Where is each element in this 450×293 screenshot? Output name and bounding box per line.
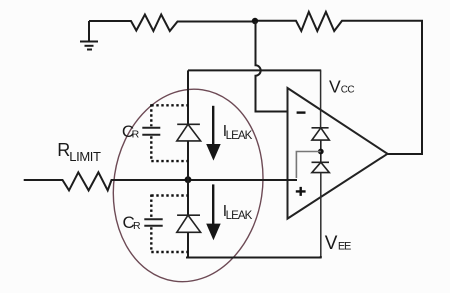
svg-text:V: V xyxy=(329,76,341,96)
svg-text:LIMIT: LIMIT xyxy=(69,149,101,164)
svg-text:R: R xyxy=(133,220,141,232)
svg-text:LEAK: LEAK xyxy=(226,210,253,222)
svg-text:LEAK: LEAK xyxy=(226,130,253,142)
svg-text:EE: EE xyxy=(338,241,351,253)
svg-text:V: V xyxy=(325,233,338,254)
svg-text:R: R xyxy=(132,129,140,141)
svg-text:CC: CC xyxy=(341,84,355,95)
